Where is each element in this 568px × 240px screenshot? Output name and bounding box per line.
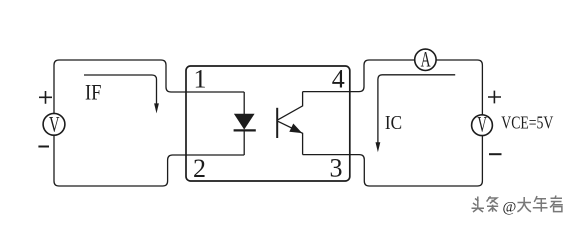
wire left loop bottom: source to pin 2	[54, 135, 244, 186]
svg-text:V: V	[49, 112, 60, 137]
transistor Q1 emitter arrowhead	[289, 124, 302, 134]
transistor Q1 base bar	[276, 108, 278, 138]
char 君	[550, 196, 563, 212]
arrowhead IC	[376, 142, 381, 152]
svg-text:V: V	[477, 111, 487, 136]
svg-text:2: 2	[193, 154, 206, 183]
watermark 头条@大年君	[472, 196, 563, 213]
char 头	[472, 197, 485, 213]
transistor Q1 emitter	[278, 121, 303, 154]
char 条	[487, 196, 499, 212]
char 大	[517, 197, 531, 212]
wire pin 3 to V2 bottom	[303, 136, 483, 186]
optocoupler U1 package	[186, 66, 350, 181]
ammeter A1	[415, 49, 436, 70]
wire IF current indicator	[84, 75, 157, 105]
LED D1 cathode bar	[234, 129, 256, 131]
svg-text:3: 3	[330, 153, 343, 182]
svg-text:4: 4	[332, 64, 345, 93]
wire IC current indicator	[378, 75, 455, 144]
svg-text:1: 1	[194, 65, 207, 94]
LED D1 cathode wire	[243, 131, 245, 155]
svg-text:@: @	[503, 200, 517, 216]
LED D1 triangle	[234, 114, 255, 130]
char 年	[533, 196, 548, 212]
LED D1 anode wire	[243, 92, 245, 114]
transistor Q1 collector	[278, 92, 303, 120]
node - (right)	[489, 153, 502, 155]
voltmeter V1 (left source)	[43, 113, 65, 135]
svg-text:IC: IC	[385, 112, 402, 134]
svg-text:A: A	[421, 46, 431, 71]
wire ammeter to V2 top	[436, 60, 482, 115]
wire left loop top: source to pin 1	[54, 60, 244, 113]
arrowhead IF	[154, 103, 159, 113]
voltmeter V2 (right source)	[472, 115, 493, 136]
node - (left)	[38, 146, 49, 148]
wire pin 4 to ammeter loop	[303, 60, 415, 92]
svg-text:IF: IF	[85, 80, 102, 105]
node + (left)	[39, 91, 52, 104]
svg-text:VCE=5V: VCE=5V	[501, 113, 553, 133]
node + (right)	[488, 91, 501, 104]
